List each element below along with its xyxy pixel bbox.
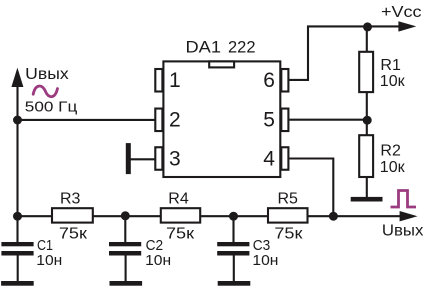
svg-text:75к: 75к: [59, 225, 88, 242]
sine wave symbol: [33, 86, 57, 97]
svg-text:Uвых: Uвых: [382, 223, 424, 240]
svg-text:222: 222: [228, 38, 256, 57]
svg-text:1: 1: [169, 69, 181, 92]
node: R1/R2/pin5 junction: [363, 116, 372, 125]
svg-text:6: 6: [263, 69, 275, 92]
svg-text:75к: 75к: [166, 225, 195, 242]
resistor R3: [52, 208, 93, 222]
svg-text:500 Гц: 500 Гц: [25, 99, 78, 116]
wire: Vcc junction to R1: [366, 26, 368, 52]
input arrow (up): [11, 68, 23, 87]
svg-text:75к: 75к: [274, 225, 303, 242]
wire: pin 2 horizontal: [18, 119, 156, 121]
DA1 notch mark: [209, 61, 234, 67]
pin box 5: [281, 109, 288, 132]
svg-text:+Vcc: +Vcc: [381, 4, 422, 21]
ground (C3): [218, 281, 251, 286]
wire: pin 4 to bottom rail: [289, 159, 333, 217]
wire: pin 6 to top rail: [289, 26, 400, 80]
node: C2 junction: [121, 211, 130, 220]
resistor R1: [359, 52, 373, 92]
svg-text:R2: R2: [380, 143, 401, 160]
wire: pin 3 stub: [129, 158, 155, 160]
svg-text:10н: 10н: [252, 252, 278, 269]
node: bottom-left junction: [13, 212, 22, 221]
wire: pin 5 to R1/R2 junction: [289, 119, 366, 121]
resistor R5: [268, 208, 308, 222]
svg-text:R5: R5: [278, 190, 299, 207]
resistor R4: [161, 208, 200, 222]
pin box 1: [155, 69, 162, 92]
resistor R2: [359, 135, 373, 177]
pin box 6: [281, 69, 288, 92]
capacitor C1: [1, 216, 33, 281]
ground (C1): [1, 281, 34, 286]
square pulse symbol: [391, 191, 417, 208]
node: pin4/output junction: [329, 212, 338, 221]
svg-text:2: 2: [169, 109, 181, 132]
node: C3 junction: [229, 212, 238, 221]
pin box 3: [155, 147, 162, 170]
svg-text:10к: 10к: [380, 159, 406, 176]
svg-text:R1: R1: [380, 57, 401, 74]
ground (R2): [351, 197, 383, 202]
+Vcc arrow: [398, 21, 416, 31]
pin box 2: [155, 109, 162, 132]
svg-text:5: 5: [263, 109, 275, 132]
capacitor C2: [109, 216, 141, 281]
wire: R2 bottom to ground: [366, 178, 368, 197]
pin box 4: [281, 147, 288, 170]
node: +Vcc junction: [363, 22, 372, 31]
wire: R1 bottom to junction: [366, 93, 368, 136]
ground (C2): [110, 281, 143, 286]
svg-text:10н: 10н: [36, 252, 62, 269]
pin 3 terminal bar: [126, 143, 131, 174]
node: left rail / pin2 junction: [13, 116, 22, 125]
svg-text:4: 4: [263, 147, 275, 170]
op-amp U1 body (DA1): [163, 61, 280, 177]
capacitor C3: [217, 216, 249, 281]
wire: bottom rail: [18, 215, 401, 217]
svg-text:DA1: DA1: [186, 38, 222, 57]
output arrow (right): [400, 211, 418, 221]
svg-text:R3: R3: [60, 190, 81, 207]
svg-text:10к: 10к: [380, 73, 406, 90]
svg-text:Uвых: Uвых: [25, 66, 68, 83]
wire: left input rail vertical: [16, 80, 18, 216]
svg-text:R4: R4: [168, 190, 189, 207]
svg-text:3: 3: [169, 147, 181, 170]
svg-text:10н: 10н: [145, 252, 171, 269]
